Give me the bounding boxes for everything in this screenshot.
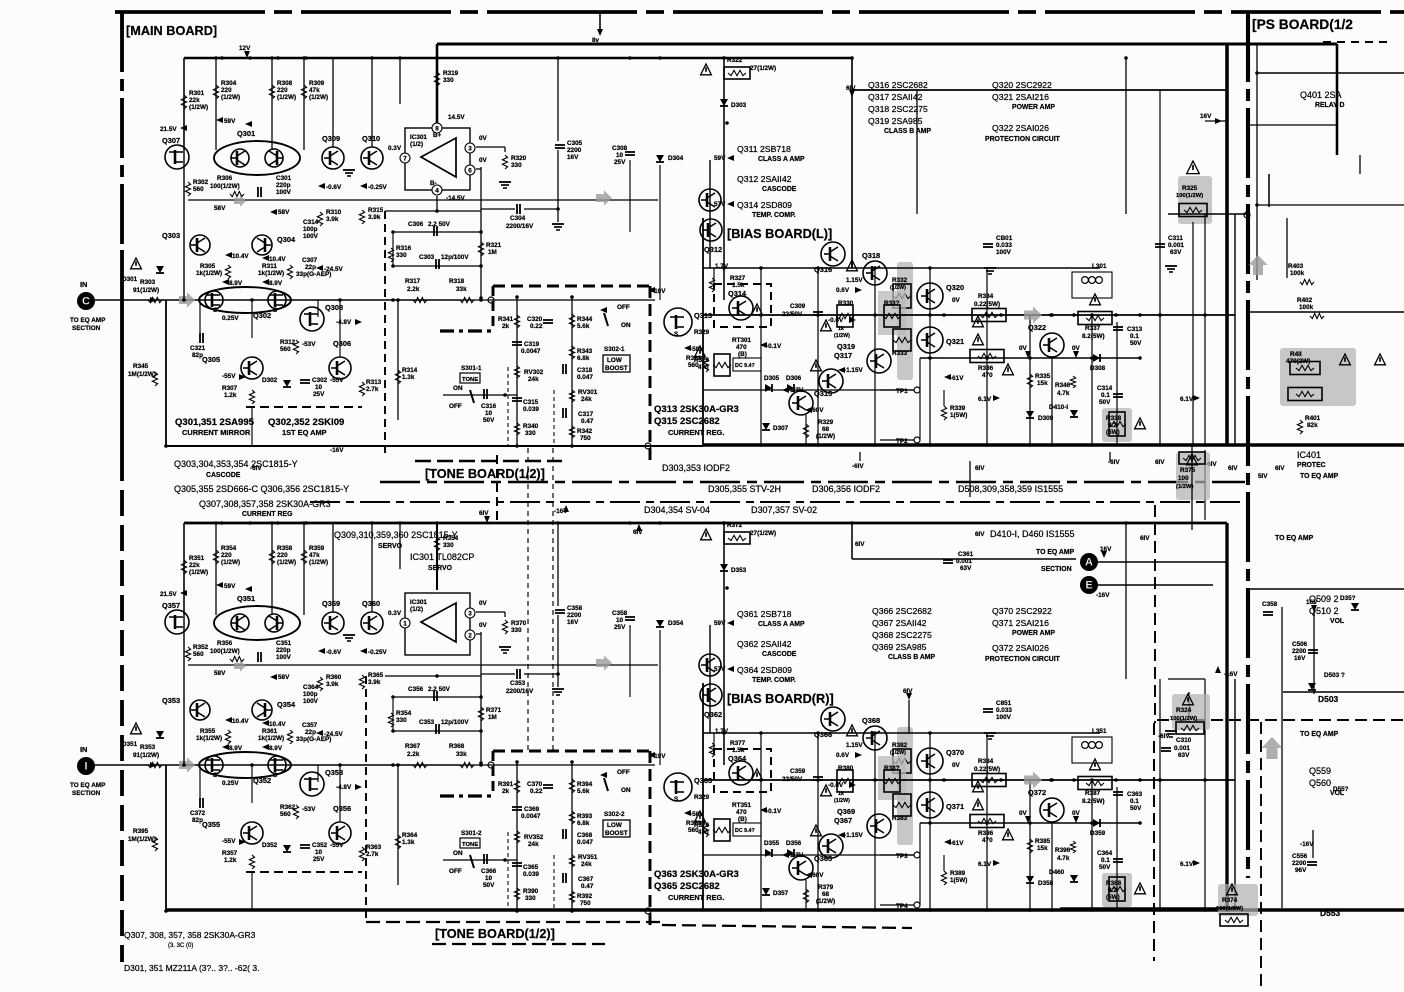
svg-text:-19V: -19V xyxy=(652,753,666,760)
svg-text:RV301: RV301 xyxy=(578,389,598,396)
svg-text:D306: D306 xyxy=(786,375,802,382)
svg-text:VOL: VOL xyxy=(1330,618,1344,625)
svg-text:470: 470 xyxy=(698,364,709,371)
svg-text:C358: C358 xyxy=(567,605,583,612)
svg-text:D309: D309 xyxy=(1038,415,1054,422)
svg-text:(1/2W): (1/2W) xyxy=(834,798,850,804)
svg-text:4: 4 xyxy=(435,188,439,195)
svg-text:2200/16V: 2200/16V xyxy=(506,223,534,230)
svg-text:-0.6V: -0.6V xyxy=(326,184,342,191)
svg-text:0.47: 0.47 xyxy=(581,883,594,890)
svg-text:ON: ON xyxy=(621,787,631,794)
svg-text:8.2(5W): 8.2(5W) xyxy=(1082,798,1105,805)
svg-text:OFF: OFF xyxy=(617,304,630,311)
svg-text:Q401 2SA: Q401 2SA xyxy=(1300,90,1342,100)
svg-text:Q301: Q301 xyxy=(237,129,255,138)
svg-text:0.47: 0.47 xyxy=(581,418,594,425)
svg-text:Q352: Q352 xyxy=(253,776,271,785)
svg-text:C310: C310 xyxy=(1176,737,1192,744)
svg-text:63V: 63V xyxy=(1170,249,1182,256)
svg-text:0.047: 0.047 xyxy=(577,839,593,846)
svg-text:R307: R307 xyxy=(222,385,238,392)
svg-text:IC301 TL082CP: IC301 TL082CP xyxy=(410,552,474,562)
svg-text:16V: 16V xyxy=(1294,655,1306,662)
svg-text:C311: C311 xyxy=(1168,235,1183,242)
svg-text:470: 470 xyxy=(698,829,709,836)
svg-text:Q305: Q305 xyxy=(202,355,220,364)
svg-text:24k: 24k xyxy=(581,861,592,868)
svg-text:(3. 3C (0): (3. 3C (0) xyxy=(168,943,193,949)
svg-text:TO EQ AMP: TO EQ AMP xyxy=(1300,731,1339,738)
svg-text:D303: D303 xyxy=(731,102,747,109)
svg-text:L301: L301 xyxy=(1092,263,1107,270)
svg-text:C357: C357 xyxy=(302,722,318,729)
svg-text:CURRENT REG.: CURRENT REG. xyxy=(668,893,724,902)
svg-text:Q372 2SAI026: Q372 2SAI026 xyxy=(992,643,1049,653)
svg-text:R322: R322 xyxy=(727,57,743,64)
svg-text:C368: C368 xyxy=(577,832,593,839)
svg-text:Q361 2SB718: Q361 2SB718 xyxy=(737,609,792,619)
svg-text:C372: C372 xyxy=(190,810,206,817)
svg-text:R382: R382 xyxy=(892,742,908,749)
svg-text:1.3k: 1.3k xyxy=(402,374,415,381)
svg-text:0.25V: 0.25V xyxy=(222,315,239,322)
svg-text:10: 10 xyxy=(485,875,493,882)
svg-text:0V: 0V xyxy=(1072,345,1081,352)
svg-text:50V: 50V xyxy=(1099,864,1111,871)
svg-text:2.7k: 2.7k xyxy=(366,386,379,393)
svg-text:6: 6 xyxy=(468,168,472,175)
svg-text:16V: 16V xyxy=(1200,113,1212,120)
svg-text:Q362: Q362 xyxy=(704,710,722,719)
svg-text:ON: ON xyxy=(453,385,463,392)
svg-text:-61V: -61V xyxy=(950,840,964,847)
svg-text:Q371: Q371 xyxy=(946,802,964,811)
svg-text:33p(G-AEP): 33p(G-AEP) xyxy=(296,736,331,743)
svg-text:6IV: 6IV xyxy=(1228,465,1238,472)
svg-text:D307,357 SV-02: D307,357 SV-02 xyxy=(751,505,817,515)
svg-text:1.2k: 1.2k xyxy=(224,392,237,399)
svg-text:10.4V: 10.4V xyxy=(232,718,249,725)
svg-text:POWER AMP: POWER AMP xyxy=(1012,630,1055,637)
svg-text:SECTION: SECTION xyxy=(72,325,101,332)
svg-text:RT351: RT351 xyxy=(732,802,752,809)
svg-text:Q305,355 2SD666-C Q306,356: Q305,355 2SD666-C Q306,356 2SC1815-Y xyxy=(174,484,349,494)
svg-text:0.033: 0.033 xyxy=(996,242,1012,249)
svg-text:C308: C308 xyxy=(612,145,628,152)
svg-text:58V: 58V xyxy=(278,209,290,216)
svg-text:8.9V: 8.9V xyxy=(269,745,283,752)
svg-text:0.1: 0.1 xyxy=(1101,392,1110,399)
svg-text:0.6V: 0.6V xyxy=(836,752,850,759)
svg-text:0.1: 0.1 xyxy=(1101,857,1110,864)
svg-text:-1.15V: -1.15V xyxy=(844,832,863,839)
svg-text:Q366: Q366 xyxy=(814,730,832,739)
svg-text:TO EQ AMP: TO EQ AMP xyxy=(70,782,106,789)
svg-text:Q371 2SAI216: Q371 2SAI216 xyxy=(992,618,1049,628)
svg-text:8.2: 8.2 xyxy=(1108,887,1117,894)
svg-text:(1/2W): (1/2W) xyxy=(816,898,835,905)
svg-text:TONE: TONE xyxy=(462,377,478,383)
svg-text:-55V: -55V xyxy=(330,842,344,849)
svg-text:TO EQ AMP: TO EQ AMP xyxy=(70,317,106,324)
svg-text:Q320 2SC2922: Q320 2SC2922 xyxy=(992,80,1052,90)
svg-text:1k(1/2W): 1k(1/2W) xyxy=(196,735,222,742)
svg-text:C352: C352 xyxy=(312,842,328,849)
svg-text:(1/2W): (1/2W) xyxy=(834,333,850,339)
svg-text:C309: C309 xyxy=(790,303,806,310)
svg-text:LOW: LOW xyxy=(607,357,622,364)
svg-text:100k: 100k xyxy=(1299,304,1314,311)
svg-text:S: S xyxy=(273,307,277,314)
svg-text:-55V: -55V xyxy=(222,838,236,845)
svg-text:0.3V: 0.3V xyxy=(388,145,402,152)
svg-text:E: E xyxy=(1085,580,1092,592)
svg-text:-61V: -61V xyxy=(950,375,964,382)
svg-text:R329: R329 xyxy=(694,329,710,336)
svg-text:Q362 2SAII42: Q362 2SAII42 xyxy=(737,639,792,649)
svg-text:[BIAS BOARD(L)]: [BIAS BOARD(L)] xyxy=(727,226,832,241)
svg-text:C364: C364 xyxy=(303,684,319,691)
svg-text:Q354: Q354 xyxy=(277,700,296,709)
svg-text:Q306: Q306 xyxy=(333,339,351,348)
svg-text:220: 220 xyxy=(277,87,288,94)
svg-text:2200: 2200 xyxy=(567,612,582,619)
svg-text:D503 ?: D503 ? xyxy=(1324,672,1345,679)
svg-text:Q313 2SK30A-GR3: Q313 2SK30A-GR3 xyxy=(654,404,739,415)
svg-text:6IV: 6IV xyxy=(903,688,913,695)
svg-text:R387: R387 xyxy=(1085,790,1101,797)
svg-text:-6IV: -6IV xyxy=(250,465,262,472)
svg-text:Q312 2SAII42: Q312 2SAII42 xyxy=(737,174,792,184)
svg-text:-6IV: -6IV xyxy=(1158,733,1170,740)
svg-text:Q363 2SK30A-GR3: Q363 2SK30A-GR3 xyxy=(654,869,739,880)
svg-text:R301: R301 xyxy=(189,90,205,97)
svg-text:8.9V: 8.9V xyxy=(229,280,243,287)
svg-text:PROTECTION CIRCUIT: PROTECTION CIRCUIT xyxy=(985,136,1061,143)
svg-text:DC 9.4?: DC 9.4? xyxy=(735,363,755,369)
svg-text:(5W): (5W) xyxy=(1106,429,1120,436)
svg-text:S: S xyxy=(213,307,217,314)
svg-text:TO EQ AMP: TO EQ AMP xyxy=(1036,549,1075,556)
svg-text:R377: R377 xyxy=(730,740,746,747)
svg-text:IC301: IC301 xyxy=(410,134,427,141)
svg-text:R308: R308 xyxy=(277,80,293,87)
svg-text:1k(1/2W): 1k(1/2W) xyxy=(258,735,284,742)
svg-text:R325: R325 xyxy=(1182,185,1198,192)
svg-text:10: 10 xyxy=(485,410,493,417)
svg-text:R374: R374 xyxy=(1222,897,1238,904)
svg-text:220: 220 xyxy=(221,87,232,94)
svg-text:S: S xyxy=(273,772,277,779)
svg-text:8.2(5W): 8.2(5W) xyxy=(1082,333,1105,340)
svg-text:R392: R392 xyxy=(577,893,593,900)
svg-text:CURRENT MIRROR: CURRENT MIRROR xyxy=(182,428,251,437)
svg-text:R389: R389 xyxy=(950,870,966,877)
svg-text:2.7k: 2.7k xyxy=(366,851,379,858)
svg-text:(B): (B) xyxy=(738,351,747,358)
svg-text:8v: 8v xyxy=(592,37,600,44)
svg-text:6IV: 6IV xyxy=(1155,459,1165,466)
svg-text:C306: C306 xyxy=(408,221,424,228)
svg-text:S302-1: S302-1 xyxy=(604,346,625,353)
svg-text:3: 3 xyxy=(468,146,472,153)
svg-text:R362: R362 xyxy=(280,804,296,811)
svg-text:IC401: IC401 xyxy=(1297,450,1321,460)
svg-text:15k: 15k xyxy=(1037,845,1048,852)
svg-text:R395: R395 xyxy=(133,828,149,835)
svg-text:C851: C851 xyxy=(996,700,1012,707)
svg-text:50V: 50V xyxy=(1099,399,1111,406)
svg-text:3.9k: 3.9k xyxy=(368,679,381,686)
svg-text:D358: D358 xyxy=(1038,880,1054,887)
svg-text:R367: R367 xyxy=(405,743,421,750)
svg-text:(1/2W): (1/2W) xyxy=(189,569,208,576)
svg-text:0.039: 0.039 xyxy=(523,871,539,878)
svg-text:C307: C307 xyxy=(302,257,318,264)
svg-text:Q364 2SD809: Q364 2SD809 xyxy=(737,665,792,675)
svg-text:58V: 58V xyxy=(214,670,226,677)
svg-text:C: C xyxy=(82,296,90,308)
svg-text:2k: 2k xyxy=(502,323,510,330)
svg-text:22k: 22k xyxy=(189,97,200,104)
svg-text:100V: 100V xyxy=(276,189,292,196)
svg-text:220: 220 xyxy=(221,552,232,559)
svg-text:Q316: Q316 xyxy=(814,265,832,274)
svg-text:R358: R358 xyxy=(277,545,293,552)
svg-text:TP1: TP1 xyxy=(896,388,908,395)
svg-text:50V: 50V xyxy=(1130,340,1142,347)
svg-text:S: S xyxy=(674,796,678,803)
svg-text:(1/2): (1/2) xyxy=(410,141,423,148)
svg-text:-53V: -53V xyxy=(302,341,316,348)
svg-text:C359: C359 xyxy=(790,768,806,775)
svg-text:C366: C366 xyxy=(481,868,497,875)
svg-text:58V: 58V xyxy=(278,674,290,681)
svg-text:10: 10 xyxy=(315,849,323,856)
svg-text:59V: 59V xyxy=(714,620,726,627)
svg-text:560: 560 xyxy=(193,651,204,658)
svg-text:RV351: RV351 xyxy=(578,854,598,861)
svg-text:25V: 25V xyxy=(614,624,626,631)
svg-text:-0.25V: -0.25V xyxy=(368,649,387,656)
svg-text:D303,353 IODF2: D303,353 IODF2 xyxy=(662,463,730,473)
svg-text:R326: R326 xyxy=(694,357,710,364)
svg-text:Q318 2SC2275: Q318 2SC2275 xyxy=(868,104,928,114)
svg-text:C369: C369 xyxy=(524,806,540,813)
svg-text:(1/2W): (1/2W) xyxy=(890,285,906,291)
svg-text:100V: 100V xyxy=(303,233,319,240)
svg-text:10: 10 xyxy=(315,384,323,391)
svg-text:-16V: -16V xyxy=(1096,592,1110,599)
svg-text:CURRENT REG.: CURRENT REG. xyxy=(668,428,724,437)
svg-text:0V: 0V xyxy=(479,157,488,164)
svg-text:0V: 0V xyxy=(479,622,488,629)
svg-text:100(1/2W): 100(1/2W) xyxy=(1216,906,1243,912)
svg-text:0.0047: 0.0047 xyxy=(521,813,541,820)
svg-text:Q360: Q360 xyxy=(362,599,380,608)
svg-text:6.1V: 6.1V xyxy=(1180,396,1194,403)
svg-text:22p: 22p xyxy=(305,729,316,736)
svg-text:1M: 1M xyxy=(488,249,497,256)
svg-text:100(1/2W): 100(1/2W) xyxy=(1170,716,1197,722)
svg-text:C353: C353 xyxy=(510,680,526,687)
svg-text:Q357: Q357 xyxy=(162,601,180,610)
svg-text:D357: D357 xyxy=(773,890,789,897)
svg-text:S301-2: S301-2 xyxy=(461,830,482,837)
svg-text:BOOST: BOOST xyxy=(605,830,628,837)
svg-text:Q307, 308, 357, 358 2SK30A-: Q307, 308, 357, 358 2SK30A-GR3 xyxy=(124,930,256,940)
svg-text:R4II: R4II xyxy=(1290,351,1302,358)
svg-text:100V: 100V xyxy=(996,714,1012,721)
svg-text:Q303: Q303 xyxy=(162,231,180,240)
svg-text:C356: C356 xyxy=(408,686,424,693)
svg-text:-0.1V: -0.1V xyxy=(766,808,782,815)
svg-text:6IV: 6IV xyxy=(1140,535,1150,542)
svg-text:(5W): (5W) xyxy=(1106,894,1120,901)
svg-text:R346: R346 xyxy=(1055,382,1071,389)
svg-text:R352: R352 xyxy=(193,644,209,651)
svg-text:Q367: Q367 xyxy=(834,816,852,825)
svg-text:0.3V: 0.3V xyxy=(388,610,402,617)
svg-text:CLASS B AMP: CLASS B AMP xyxy=(888,654,936,661)
svg-text:CASCODE: CASCODE xyxy=(762,186,797,193)
svg-text:560: 560 xyxy=(280,346,291,353)
svg-text:R309: R309 xyxy=(309,80,325,87)
svg-text:82k: 82k xyxy=(1307,422,1318,429)
svg-text:1.7V: 1.7V xyxy=(715,728,729,735)
svg-text:330: 330 xyxy=(443,77,454,84)
svg-text:C363: C363 xyxy=(1127,791,1143,798)
svg-text:R344: R344 xyxy=(577,316,593,323)
svg-text:DC 9.4?: DC 9.4? xyxy=(735,828,755,834)
svg-text:R353: R353 xyxy=(140,744,156,751)
svg-text:96V: 96V xyxy=(1295,867,1307,874)
svg-text:Q316 2SC2682: Q316 2SC2682 xyxy=(868,80,928,90)
svg-text:D353: D353 xyxy=(731,567,747,574)
svg-text:50V: 50V xyxy=(483,417,495,424)
svg-text:2.2 50V: 2.2 50V xyxy=(428,221,451,228)
svg-text:R375: R375 xyxy=(1180,467,1196,474)
svg-text:C556: C556 xyxy=(1292,853,1308,860)
svg-text:C302: C302 xyxy=(312,377,328,384)
svg-text:-16V: -16V xyxy=(1224,671,1238,678)
svg-text:Q353: Q353 xyxy=(162,696,180,705)
svg-text:750: 750 xyxy=(580,435,591,442)
svg-text:R329: R329 xyxy=(818,419,834,426)
svg-text:2.2k: 2.2k xyxy=(407,751,420,758)
svg-text:16V: 16V xyxy=(1306,599,1318,606)
svg-text:470: 470 xyxy=(736,809,747,816)
svg-text:TO EQ AMP: TO EQ AMP xyxy=(1300,473,1339,480)
svg-text:0V: 0V xyxy=(952,762,961,769)
svg-text:Q304: Q304 xyxy=(277,235,296,244)
svg-text:R335: R335 xyxy=(1035,373,1051,380)
svg-text:R383: R383 xyxy=(892,815,908,822)
svg-text:Q367 2SAII42: Q367 2SAII42 xyxy=(872,618,927,628)
svg-text:Q368: Q368 xyxy=(862,716,880,725)
svg-text:B-: B- xyxy=(430,180,437,187)
svg-text:(1/2W): (1/2W) xyxy=(221,94,240,101)
svg-text:SERVO: SERVO xyxy=(428,565,453,572)
svg-text:R357: R357 xyxy=(222,850,238,857)
svg-text:0.001: 0.001 xyxy=(1174,745,1190,752)
svg-text:6IV: 6IV xyxy=(975,531,985,538)
svg-text:50V: 50V xyxy=(483,882,495,889)
svg-text:3.9k: 3.9k xyxy=(326,216,339,223)
svg-text:TP4: TP4 xyxy=(896,903,908,910)
svg-text:Q307: Q307 xyxy=(162,136,180,145)
svg-text:[TONE BOARD(1/2)]: [TONE BOARD(1/2)] xyxy=(435,926,555,941)
svg-text:CLASS B AMP: CLASS B AMP xyxy=(884,128,932,135)
svg-text:OFF: OFF xyxy=(617,769,630,776)
svg-text:R305: R305 xyxy=(200,263,216,270)
svg-text:[MAIN BOARD]: [MAIN BOARD] xyxy=(126,23,217,38)
svg-text:R394: R394 xyxy=(577,781,593,788)
svg-text:R360: R360 xyxy=(326,674,342,681)
svg-text:-60V: -60V xyxy=(810,407,824,414)
svg-text:C367: C367 xyxy=(578,876,594,883)
svg-text:0V: 0V xyxy=(952,297,961,304)
svg-text:6IV: 6IV xyxy=(846,85,856,92)
svg-text:Q312: Q312 xyxy=(704,245,722,254)
svg-text:10.4V: 10.4V xyxy=(269,256,286,263)
svg-text:POWER AMP: POWER AMP xyxy=(1012,104,1055,111)
svg-text:2200: 2200 xyxy=(1292,648,1307,655)
svg-text:1(5W): 1(5W) xyxy=(950,412,967,419)
svg-text:Q311 2SB718: Q311 2SB718 xyxy=(737,144,791,154)
svg-text:0.1: 0.1 xyxy=(1130,333,1139,340)
svg-text:220p: 220p xyxy=(276,182,291,189)
svg-text:Q559: Q559 xyxy=(1309,766,1331,776)
svg-text:Q310: Q310 xyxy=(362,134,380,143)
svg-text:6IV: 6IV xyxy=(975,465,985,472)
svg-text:1: 1 xyxy=(403,621,407,628)
svg-text:C364: C364 xyxy=(1097,850,1113,857)
svg-text:Q321: Q321 xyxy=(946,337,964,346)
svg-text:27(1/2W): 27(1/2W) xyxy=(750,65,776,72)
svg-text:0V: 0V xyxy=(1019,810,1028,817)
svg-text:R330: R330 xyxy=(838,300,854,307)
svg-text:Q351: Q351 xyxy=(237,594,255,603)
svg-text:R333: R333 xyxy=(892,350,908,357)
svg-text:D305: D305 xyxy=(764,375,780,382)
svg-text:C351: C351 xyxy=(276,640,292,647)
svg-text:47k: 47k xyxy=(309,87,320,94)
svg-text:R371: R371 xyxy=(486,707,502,714)
svg-text:A: A xyxy=(1085,557,1093,569)
svg-text:63V: 63V xyxy=(1178,752,1190,759)
svg-text:Q372: Q372 xyxy=(1028,788,1046,797)
svg-text:S: S xyxy=(674,331,678,338)
svg-text:2200/16V: 2200/16V xyxy=(506,688,534,695)
svg-text:D508,309,358,359 IS1555: D508,309,358,359 IS1555 xyxy=(958,484,1063,494)
svg-text:R321: R321 xyxy=(486,242,502,249)
svg-text:Q365 2SC2682: Q365 2SC2682 xyxy=(654,881,720,892)
svg-text:Q309,310,359,360 2SC1815-Y: Q309,310,359,360 2SC1815-Y xyxy=(334,530,458,540)
svg-text:Q317: Q317 xyxy=(834,351,852,360)
svg-text:0.1: 0.1 xyxy=(1130,798,1139,805)
svg-text:1M(1/2W): 1M(1/2W) xyxy=(128,836,156,843)
svg-text:R351: R351 xyxy=(189,555,205,562)
svg-text:Q320: Q320 xyxy=(946,283,964,292)
svg-text:(B): (B) xyxy=(738,816,747,823)
svg-text:D301, 351 MZ211A (3: D301, 351 MZ211A (3?.. 3?.. -62( 3. xyxy=(124,963,259,973)
svg-text:10: 10 xyxy=(616,617,624,624)
svg-text:(1/2W): (1/2W) xyxy=(309,94,328,101)
svg-text:-4.8V: -4.8V xyxy=(336,784,352,791)
svg-text:D351: D351 xyxy=(122,741,138,748)
